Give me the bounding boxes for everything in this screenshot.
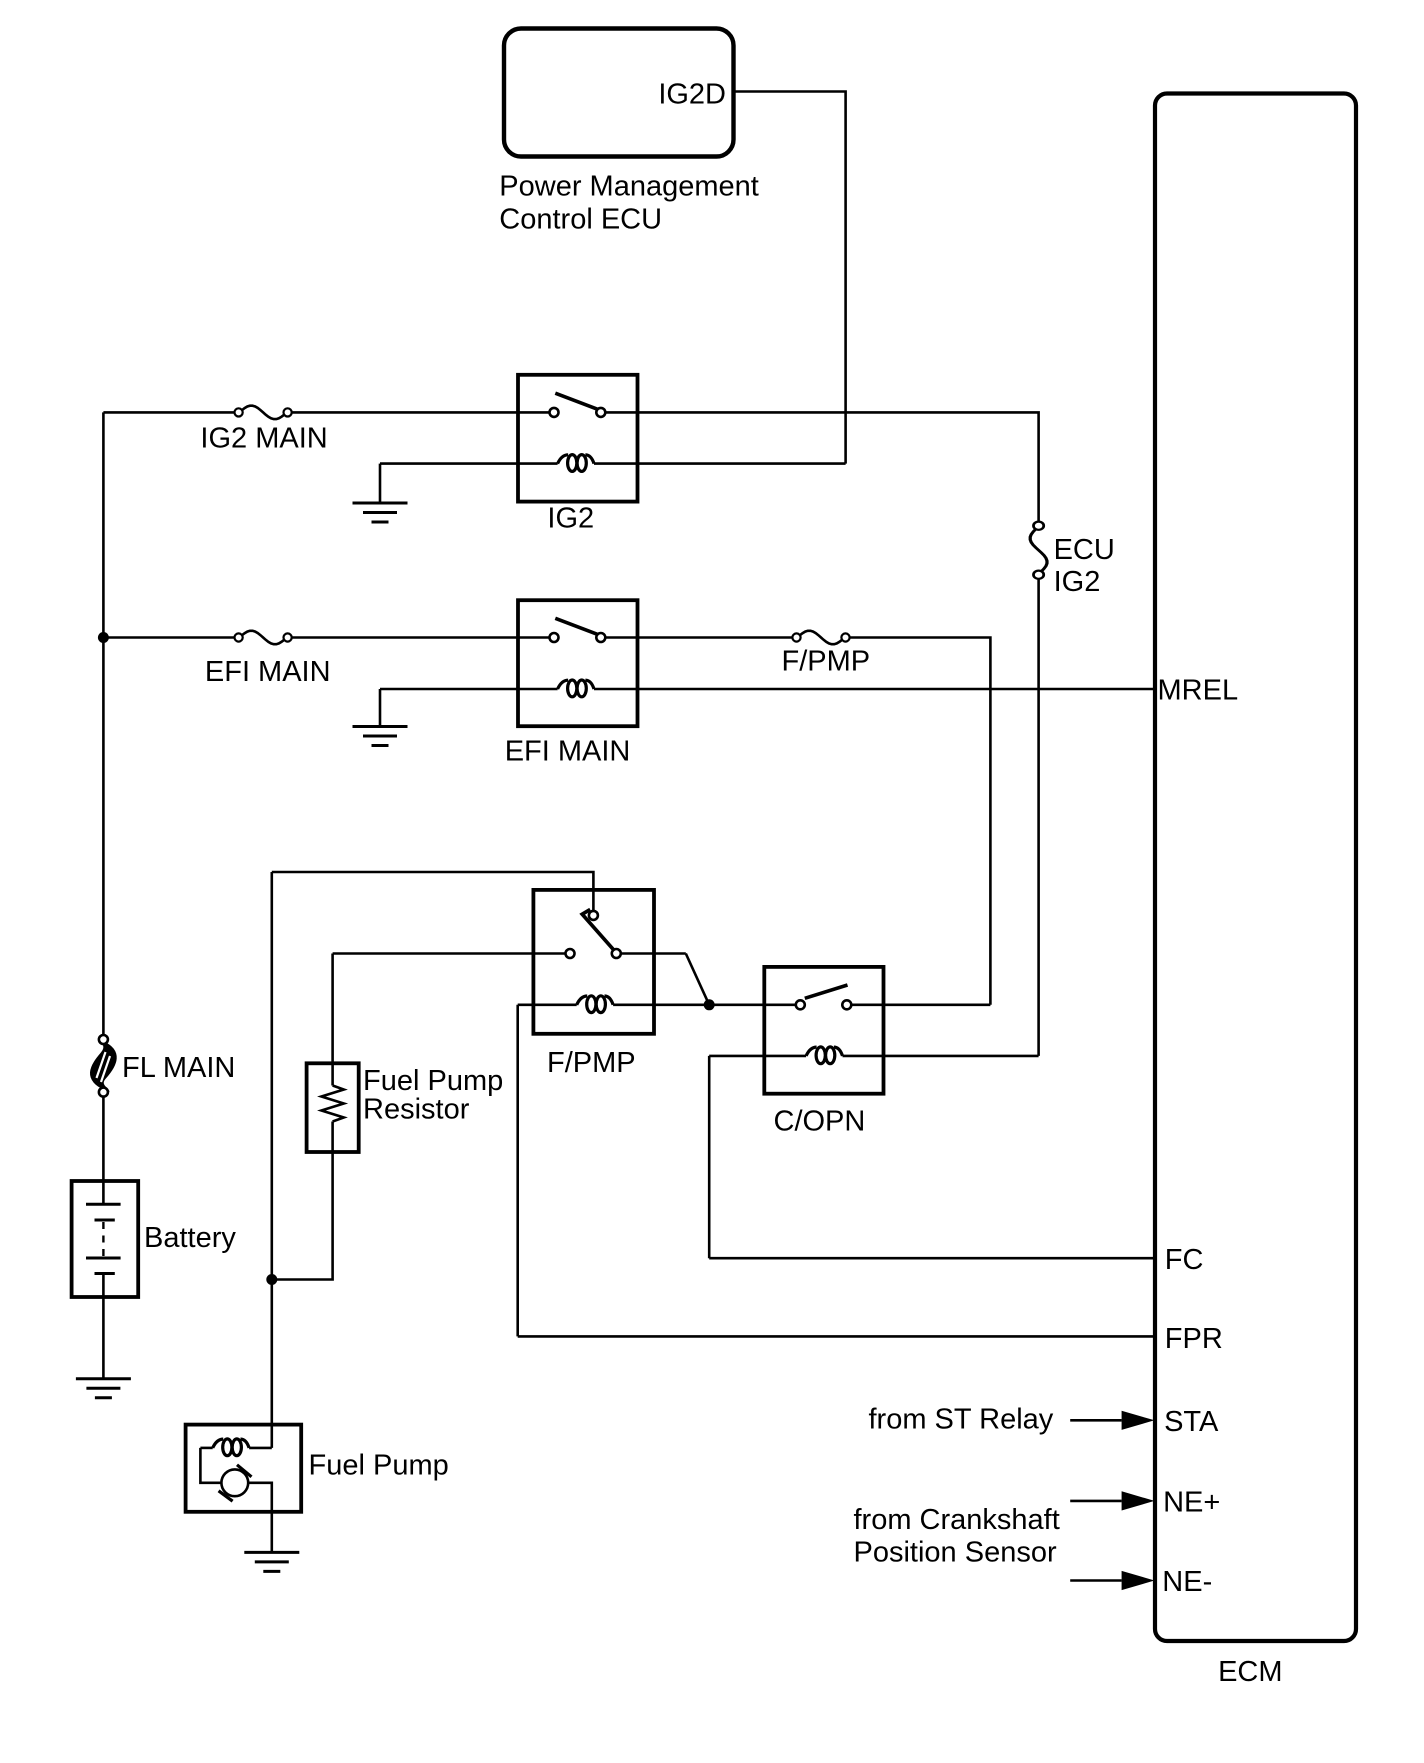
wire: EFI relay switch output to F/PMP fuse — [606, 636, 792, 639]
wire: motor to ground drop — [248, 1483, 272, 1553]
label from Crankshaft Position Sensor — [854, 1504, 1060, 1569]
svg-text:F/PMP: F/PMP — [782, 645, 871, 677]
relay EFI MAIN coil — [558, 680, 594, 697]
svg-text:EFI MAIN: EFI MAIN — [205, 656, 331, 688]
wire: F/PMP coil to C/OPN switch contact — [613, 1003, 795, 1006]
ECM box — [1155, 94, 1356, 1642]
wire: battery bus to IG2 MAIN fuse — [103, 411, 234, 414]
fuel pump resistor box — [307, 1063, 359, 1152]
wire: IG2 relay switch output to ECU IG2 fuse — [606, 412, 1039, 521]
fusible link FL MAIN — [92, 1035, 115, 1097]
wire: C/OPN coil branch down to FC — [708, 1056, 711, 1258]
node: junction F/PMP coil / C/OPN switch — [704, 999, 715, 1010]
svg-text:FL MAIN: FL MAIN — [122, 1052, 235, 1084]
fuse IG2 MAIN — [235, 406, 292, 419]
wire: pump coil left — [200, 1447, 212, 1450]
wire FC row to ECM — [709, 1257, 1155, 1260]
wire: battery bus vertical — [102, 412, 105, 1034]
relay C/OPN box — [764, 967, 883, 1094]
wire: F/PMP left contact row down into resistor — [331, 954, 334, 1086]
fuel pump motor — [221, 1469, 248, 1496]
wire: FPR branch to F/PMP coil — [518, 1003, 577, 1006]
relay EFI MAIN armature — [555, 618, 597, 634]
relay EFI MAIN contact right — [596, 633, 605, 642]
wire: bus to EFI MAIN fuse — [103, 636, 234, 639]
wire: battery node vertical — [270, 872, 273, 1448]
relay F/PMP contact left — [566, 949, 575, 958]
svg-text:ECU: ECU — [1054, 534, 1115, 566]
node: junction battery feed — [266, 1274, 277, 1285]
svg-text:NE-: NE- — [1162, 1566, 1212, 1598]
relay F/PMP armature — [582, 910, 614, 951]
label Fuel Pump Resistor — [363, 1065, 503, 1126]
fuse F/PMP — [792, 631, 849, 644]
svg-text:IG2 MAIN: IG2 MAIN — [200, 423, 327, 455]
ground (battery) — [76, 1379, 131, 1398]
wire: C/OPN right contact to F/PMP fuse drop — [852, 1003, 991, 1006]
label ECU IG2 — [1054, 534, 1115, 598]
wire: fuel pump resistor to F/PMP left contact — [333, 952, 566, 955]
arrow NE- — [1070, 1571, 1154, 1590]
ground stem (IG2 relay) — [379, 464, 382, 503]
relay C/OPN contact right — [842, 1000, 851, 1009]
relay IG2 armature — [555, 393, 597, 409]
svg-text:Fuel Pump: Fuel Pump — [309, 1450, 449, 1482]
wire: ground branch to EFI coil — [380, 688, 558, 691]
wire FPR row to ECM — [518, 1335, 1155, 1338]
fuse EFI MAIN — [235, 631, 292, 644]
svg-text:FC: FC — [1165, 1244, 1204, 1276]
svg-text:IG2: IG2 — [547, 503, 594, 535]
ground (EFI relay) — [353, 727, 408, 746]
svg-text:Resistor: Resistor — [363, 1094, 470, 1126]
wire: F/PMP coil branch down to FPR — [516, 1005, 519, 1337]
relay EFI MAIN contact left — [550, 633, 559, 642]
arrow STA — [1070, 1411, 1154, 1430]
svg-text:EFI MAIN: EFI MAIN — [505, 735, 631, 767]
wire: FC branch to C/OPN coil — [709, 1055, 806, 1058]
svg-text:Power Management: Power Management — [499, 171, 759, 203]
relay IG2 coil — [558, 455, 594, 472]
svg-text:MREL: MREL — [1158, 675, 1239, 707]
ground (IG2 relay) — [353, 503, 408, 522]
svg-text:from Crankshaft: from Crankshaft — [854, 1504, 1060, 1536]
wire: F/PMP relay feed from battery node — [272, 872, 594, 910]
svg-text:Fuel Pump: Fuel Pump — [363, 1065, 503, 1097]
wire: battery to ground — [102, 1274, 105, 1379]
wire: diagonal to junction — [686, 954, 709, 1005]
svg-text:IG2D: IG2D — [658, 78, 726, 110]
relay IG2 box — [518, 375, 638, 502]
relay C/OPN coil — [806, 1047, 842, 1064]
svg-text:Position Sensor: Position Sensor — [854, 1537, 1057, 1569]
wire: resistor down to junction — [272, 1122, 333, 1280]
power management control ECU box — [504, 29, 734, 157]
relay IG2 contact left — [550, 408, 559, 417]
wire: F/PMP right contact out — [621, 952, 686, 955]
svg-text:FPR: FPR — [1165, 1323, 1223, 1355]
ground stem (EFI relay) — [379, 689, 382, 727]
svg-text:C/OPN: C/OPN — [774, 1106, 866, 1138]
label Power Management Control ECU — [499, 171, 759, 236]
battery box — [72, 1181, 139, 1297]
fuse ECU IG2 — [1030, 522, 1047, 579]
battery plates — [86, 1204, 121, 1273]
wire: pump coil to motor — [200, 1448, 221, 1483]
relay F/PMP contact right — [612, 949, 621, 958]
wire: IG2 coil to IG2D drop — [594, 462, 846, 465]
svg-text:F/PMP: F/PMP — [547, 1047, 636, 1079]
svg-text:IG2: IG2 — [1054, 566, 1101, 598]
wire: EFI MAIN fuse to EFI relay contact — [292, 636, 549, 639]
resistor zigzag — [321, 1086, 343, 1122]
svg-text:ECM: ECM — [1218, 1656, 1282, 1688]
relay EFI MAIN box — [518, 600, 638, 726]
svg-text:NE+: NE+ — [1163, 1486, 1220, 1518]
svg-text:Control ECU: Control ECU — [499, 203, 662, 235]
relay C/OPN armature — [805, 985, 848, 998]
svg-text:STA: STA — [1164, 1406, 1219, 1438]
svg-text:Battery: Battery — [144, 1222, 236, 1254]
wire MREL: EFI coil to ECM — [594, 688, 1155, 691]
relay F/PMP coil — [577, 996, 613, 1013]
fuel pump box — [186, 1425, 302, 1512]
relay F/PMP box — [533, 890, 654, 1034]
relay IG2 contact right — [596, 408, 605, 417]
wire: IG2 MAIN fuse to IG2 relay contact — [292, 411, 549, 414]
relay F/PMP contact top — [589, 911, 598, 920]
wire: C/OPN coil to ECU IG2 fuse drop — [843, 1055, 1039, 1058]
wire: IG2D to IG2 relay coil — [734, 92, 846, 464]
wire: ECU IG2 fuse to C/OPN coil — [1037, 579, 1040, 1056]
relay C/OPN contact left — [796, 1000, 805, 1009]
wire: pump coil right — [249, 1447, 272, 1450]
wire: ground branch to IG2 coil — [380, 462, 558, 465]
wire: FL MAIN to battery — [102, 1097, 105, 1204]
wire: F/PMP fuse down to C/OPN switch — [850, 638, 990, 1005]
motor brush marks — [219, 1465, 252, 1501]
node: bus junction at EFI MAIN row — [98, 632, 109, 643]
ground (fuel pump) — [244, 1552, 299, 1571]
arrow NE+ — [1070, 1491, 1154, 1510]
fuel pump coil — [213, 1439, 249, 1456]
svg-text:from ST Relay: from ST Relay — [869, 1404, 1054, 1436]
